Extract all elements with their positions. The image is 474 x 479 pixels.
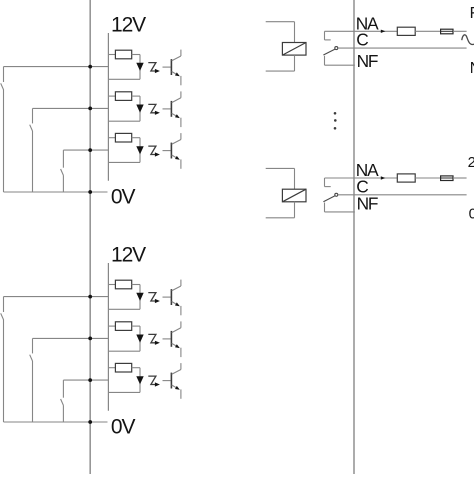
current direction arrow K2 xyxy=(381,176,386,179)
wire resistor feed row 3 xyxy=(108,137,115,139)
LED D1 (optocoupler emitter) xyxy=(136,63,143,71)
wire resistor feed row 2 xyxy=(108,95,115,97)
wire resistor to LED row 3 xyxy=(132,137,140,139)
wire LED return row 4 xyxy=(108,308,140,310)
relay coil K2 top lead xyxy=(266,167,295,169)
wire resistor to fuse K1 xyxy=(415,30,440,32)
phototransistor Q3 base lead xyxy=(163,150,171,152)
optocoupler light arrows U4 xyxy=(148,293,156,301)
optocoupler light arrows U1 xyxy=(148,63,156,71)
svg-text:2: 2 xyxy=(468,154,474,171)
contact NA fixed terminal K1 xyxy=(325,30,398,32)
phototransistor Q4 xyxy=(170,289,172,305)
contact pivot K1 xyxy=(335,47,338,50)
resistor R2 xyxy=(115,92,131,101)
svg-text:F: F xyxy=(470,5,474,22)
svg-text:0: 0 xyxy=(469,205,474,222)
switch S1 xyxy=(3,67,5,82)
phototransistor Q6 base lead xyxy=(163,380,171,382)
phototransistor Q2 xyxy=(170,101,172,117)
wire resistor feed row 6 xyxy=(108,367,115,369)
12V rail (block B) xyxy=(107,263,109,411)
contact blade K2 xyxy=(323,196,334,202)
contact C wire K2 xyxy=(338,194,467,196)
left terminal bus line xyxy=(89,0,91,474)
input wire node row 6 xyxy=(63,379,108,381)
svg-text:12V: 12V xyxy=(111,244,146,267)
wire resistor feed row 4 xyxy=(108,284,115,286)
svg-text:0V: 0V xyxy=(111,186,136,209)
contact NF fixed terminal K1 xyxy=(324,56,326,65)
12V rail (block A) xyxy=(107,33,109,181)
svg-text:NF: NF xyxy=(357,193,378,213)
wire resistor to LED row 4 xyxy=(132,284,140,286)
junction dot node row 6 xyxy=(88,378,92,382)
junction dot node row 5 xyxy=(88,337,92,341)
switch S3 xyxy=(62,150,64,168)
junction dot 0V (block B) xyxy=(88,420,92,424)
LED D6 (optocoupler emitter) xyxy=(136,376,143,384)
optocoupler light arrows U6 xyxy=(148,376,156,384)
LED D5 (optocoupler emitter) xyxy=(136,335,143,343)
phototransistor Q3 xyxy=(170,143,172,159)
current direction arrow K1 xyxy=(381,30,386,33)
input wire node row 2 xyxy=(33,107,109,109)
wire resistor to LED row 1 xyxy=(132,54,140,56)
switch S2 xyxy=(32,108,34,123)
ellipsis dots more channels xyxy=(334,112,337,115)
input wire node row 1 xyxy=(4,66,109,68)
input wire node row 4 xyxy=(4,296,109,298)
wire resistor to fuse K2 xyxy=(415,177,440,179)
relay coil K2 xyxy=(282,189,306,202)
wire resistor feed row 1 xyxy=(108,54,115,56)
contact C wire K1 xyxy=(338,47,467,49)
optocoupler light arrows U2 xyxy=(148,104,156,112)
load resistor K1 xyxy=(397,27,415,35)
resistor R4 xyxy=(115,280,131,289)
fuse K2 xyxy=(441,176,453,181)
wire resistor to LED row 2 xyxy=(132,95,140,97)
relay coil K1 top lead xyxy=(266,21,295,23)
wire LED return row 2 xyxy=(108,120,140,122)
LED D3 (optocoupler emitter) xyxy=(136,146,143,154)
phototransistor Q1 xyxy=(170,59,172,75)
right terminal bus line xyxy=(353,0,355,474)
junction dot node row 3 xyxy=(88,148,92,152)
wire resistor to LED row 6 xyxy=(132,367,140,369)
svg-text:NF: NF xyxy=(357,51,378,71)
relay coil K1 bottom lead xyxy=(294,55,296,71)
input wire node row 5 xyxy=(33,337,109,339)
LED D4 (optocoupler emitter) xyxy=(136,293,143,301)
svg-text:0V: 0V xyxy=(111,416,136,439)
svg-text:C: C xyxy=(356,30,368,50)
wire resistor to LED row 5 xyxy=(132,325,140,327)
switch S4 xyxy=(3,297,5,312)
contact NF fixed terminal K2 xyxy=(324,203,326,212)
optocoupler light arrows U5 xyxy=(148,334,156,342)
wire LED return row 1 xyxy=(108,78,140,80)
resistor R1 xyxy=(115,50,131,59)
contact NA fixed terminal K2 xyxy=(325,177,398,179)
junction dot node row 4 xyxy=(88,295,92,299)
input wire node row 3 xyxy=(63,149,108,151)
relay coil K2 bottom lead xyxy=(294,202,296,218)
resistor R6 xyxy=(115,363,131,372)
relay coil K1 xyxy=(282,43,306,56)
phototransistor Q2 base lead xyxy=(163,108,171,110)
wire LED return row 5 xyxy=(108,350,140,352)
contact pivot K2 xyxy=(335,193,338,196)
phototransistor Q5 base lead xyxy=(163,338,171,340)
0V wire (block B) xyxy=(4,421,108,423)
wire fuse to edge K1 xyxy=(453,30,467,32)
LED D2 (optocoupler emitter) xyxy=(136,105,143,113)
phototransistor Q6 xyxy=(170,373,172,389)
phototransistor Q4 base lead xyxy=(163,296,171,298)
AC source squiggle xyxy=(462,35,474,45)
contact blade K1 xyxy=(323,49,334,55)
svg-text:12V: 12V xyxy=(111,14,146,37)
wire LED return row 3 xyxy=(108,161,140,163)
wire resistor feed row 5 xyxy=(108,325,115,327)
0V wire (block A) xyxy=(4,191,108,193)
junction dot 0V (block A) xyxy=(88,190,92,194)
switch S6 xyxy=(62,380,64,398)
fuse K1 xyxy=(441,29,453,34)
junction dot node row 1 xyxy=(88,65,92,69)
wire LED return row 6 xyxy=(108,391,140,393)
optocoupler light arrows U3 xyxy=(148,146,156,154)
phototransistor Q1 base lead xyxy=(163,66,171,68)
resistor R5 xyxy=(115,322,131,331)
svg-text:N: N xyxy=(470,60,474,77)
junction dot node row 2 xyxy=(88,107,92,111)
load resistor K2 xyxy=(397,174,415,182)
phototransistor Q5 xyxy=(170,331,172,347)
switch S5 xyxy=(32,338,34,353)
wire fuse to edge K2 xyxy=(453,177,467,179)
resistor R3 xyxy=(115,133,131,142)
